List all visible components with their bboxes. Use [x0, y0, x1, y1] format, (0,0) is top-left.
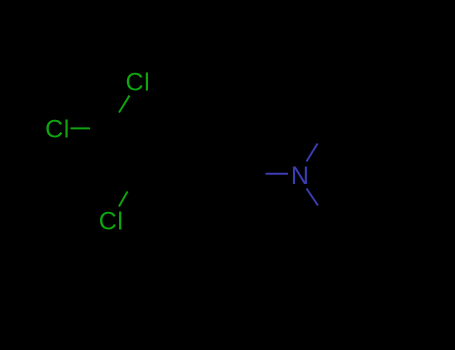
- svg-text:Cl: Cl: [99, 208, 124, 236]
- svg-text:N: N: [291, 162, 309, 190]
- svg-text:Cl: Cl: [45, 116, 70, 144]
- svg-text:Cl: Cl: [126, 69, 151, 97]
